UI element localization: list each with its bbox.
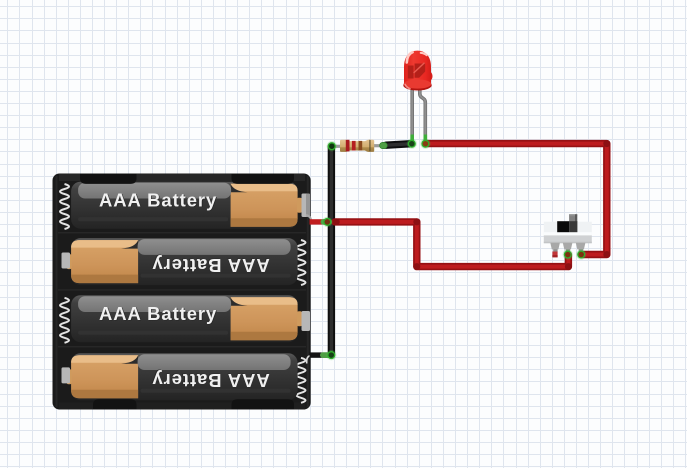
node resistor left junction (327, 142, 336, 151)
tab slot 3 (302, 311, 311, 331)
retaining clip top right (232, 174, 295, 184)
wire W3 red battery-positive to switch pin2 (333, 218, 572, 270)
retaining clip top left (80, 174, 137, 184)
node battery negative junction (327, 351, 336, 360)
LED LED1 red 5mm (403, 51, 432, 142)
node battery positive junction (323, 217, 332, 226)
battery negative lead black stub (310, 352, 332, 358)
battery cell 3 (AAA, facing right) (71, 295, 302, 342)
node switch pin2 junction (563, 250, 572, 259)
battery cell 2 (AAA, flipped) (67, 238, 298, 285)
retaining clip bottom left (93, 399, 137, 409)
positive tab slot 1 (302, 194, 312, 222)
tab slot 2 (62, 253, 71, 269)
resistor R1 220 ohm (333, 140, 387, 152)
negative tab slot 4 (307, 356, 312, 364)
spring contact slot 1 (60, 184, 69, 229)
battery positive lead red stub (310, 219, 333, 225)
tab slot 4 left (62, 367, 71, 383)
node LED anode junction (421, 139, 430, 148)
switch S1 slide switch (544, 214, 592, 257)
wire W4 red switch pin3 to LED anode (425, 140, 610, 258)
spring contact slot 4 (297, 358, 306, 403)
spring contact slot 3 (60, 298, 69, 343)
wire W2 black resistor to LED cathode (386, 144, 412, 146)
node LED cathode junction (407, 139, 416, 148)
retaining clip bottom right (232, 399, 295, 409)
wire W1 black battery-negative to resistor (328, 146, 335, 355)
battery cell 4 (AAA, flipped) (67, 353, 298, 400)
battery cell 1 (AAA, facing right) (71, 182, 302, 229)
spring contact slot 2 (297, 240, 306, 285)
node switch pin3 junction (577, 250, 586, 259)
battery holder BT1 4xAAA (53, 174, 311, 410)
